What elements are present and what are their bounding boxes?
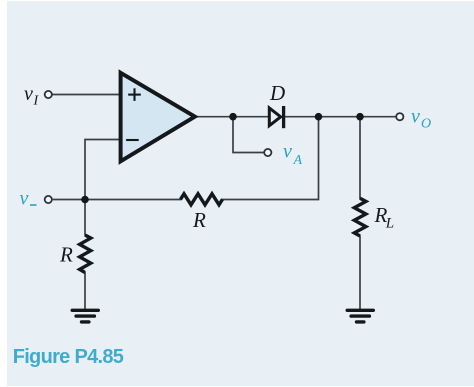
svg-text:O: O [421,117,431,132]
wire node v- down to resistor R [84,200,86,236]
label v- [20,188,37,210]
label vA [283,141,303,169]
ground (right) [347,310,373,322]
svg-text:v: v [411,106,420,128]
svg-text:D: D [269,81,285,105]
diode D [269,106,283,128]
terminal vO [396,113,403,120]
wire node C down to resistor RL [359,117,361,199]
svg-text:v: v [24,83,33,105]
label vO [411,106,431,132]
svg-text:Figure P4.85: Figure P4.85 [13,346,124,368]
label vI [24,83,40,109]
resistor RL [354,198,366,236]
wire node A to diode anode [233,116,268,118]
svg-text:v: v [20,188,29,210]
ground (left) [72,310,98,322]
label RL [374,203,395,232]
svg-text:R: R [192,208,206,232]
wire node v- to feedback resistor R [85,199,182,201]
node C (RL junction) [356,113,364,121]
wire v- terminal to node v- [53,199,85,201]
wire feedback resistor R up to node B [222,117,319,200]
wire diode cathode to node B [284,116,319,118]
resistor R (feedback) [181,194,223,205]
svg-text:v: v [283,141,292,163]
wire node B to node C [319,116,361,118]
svg-text:A: A [293,153,303,168]
resistor R (left, to ground) [80,235,91,273]
svg-text:R: R [59,243,73,267]
wire vI terminal to op-amp + input [52,94,121,96]
terminal v- [45,196,52,203]
wire node C to vO terminal [360,116,396,118]
terminal vA [264,149,271,156]
wire op-amp - input to node v- [85,140,121,200]
node B (diode cathode / feedback) [315,113,323,121]
wire node A down to vA terminal [233,117,264,153]
wire op-amp output to node A [196,116,233,118]
wire resistor RL to right ground [359,236,361,311]
terminal vI [45,91,52,98]
svg-text:L: L [385,216,394,232]
op-amp U1 [121,73,195,162]
wire resistor R to left ground [84,272,86,310]
node v- junction [81,196,89,204]
node A (op-amp output / diode anode) [229,113,237,121]
